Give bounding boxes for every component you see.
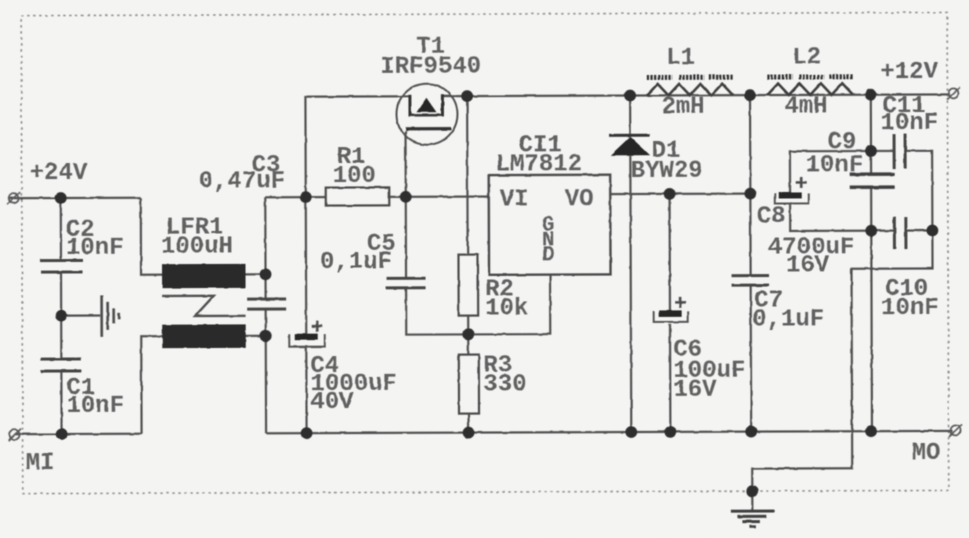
svg-text:10nF: 10nF bbox=[66, 235, 124, 262]
capacitor C4 electrolytic bbox=[289, 321, 325, 347]
junction C10/C11 earth-side node bbox=[926, 225, 938, 237]
capacitor C10 bbox=[894, 217, 906, 249]
wire: C2/C1 vertical chain bbox=[60, 198, 62, 260]
wire: C11 leads bbox=[871, 150, 893, 152]
junction R2/R3/C5/GND node bbox=[462, 328, 474, 340]
svg-text:2mH: 2mH bbox=[661, 94, 704, 121]
wire: left pillar from bottom coil to bottom rail bbox=[141, 336, 162, 434]
capacitor C6 electrolytic bbox=[654, 297, 688, 322]
resistor R1 bbox=[326, 187, 390, 205]
capacitor C1 bbox=[41, 359, 82, 371]
wire: regulator GND lead bbox=[468, 275, 550, 335]
wire: T1 gate lead bbox=[404, 131, 406, 197]
junction C6 bottom on ground rail bbox=[664, 426, 676, 438]
junction cap chain on ground rail bbox=[865, 425, 877, 437]
wire: C4 branch bbox=[305, 197, 308, 333]
wire: C8 top loop bbox=[790, 151, 871, 192]
svg-text:16V: 16V bbox=[673, 377, 717, 404]
svg-text:D: D bbox=[542, 244, 555, 267]
svg-text:BYW29: BYW29 bbox=[631, 158, 703, 185]
junction C6 top on VO rail bbox=[664, 188, 676, 200]
wire: C7 branch bbox=[749, 95, 752, 275]
inductor L2 bbox=[767, 77, 853, 95]
capacitor C11 bbox=[894, 134, 905, 169]
junction R1/C5/T1 gate node bbox=[400, 191, 412, 203]
terminal MO bottom bbox=[949, 424, 962, 436]
svg-text:LM7812: LM7812 bbox=[496, 151, 583, 178]
svg-text:L2: L2 bbox=[792, 44, 821, 71]
wire: VO rail bbox=[610, 193, 750, 196]
regulator CI1 LM7812 box bbox=[489, 175, 611, 275]
capacitor C7 bbox=[732, 276, 770, 286]
diode D1 bbox=[609, 135, 650, 155]
wire: earth branch from output caps bbox=[751, 230, 933, 509]
svg-text:10nF: 10nF bbox=[66, 393, 124, 420]
terminal MI top bbox=[7, 192, 20, 204]
earth symbol left bbox=[102, 295, 120, 337]
svg-text:0,1uF: 0,1uF bbox=[320, 249, 392, 276]
junction R3 bottom on ground rail bbox=[463, 427, 475, 439]
wire: VI rail left of R1 bbox=[265, 196, 326, 198]
wire: R2 top lead from output rail bbox=[466, 96, 469, 254]
wire: C10 leads bbox=[871, 230, 893, 232]
junction C1 bottom on ground rail bbox=[56, 428, 68, 440]
junction C4/R1 node on VI rail bbox=[300, 191, 312, 203]
svg-text:330: 330 bbox=[483, 371, 526, 398]
svg-text:MI: MI bbox=[26, 450, 55, 477]
wire: top rail from T1 to +12V terminal bbox=[456, 94, 949, 96]
junction L1/L2 node bbox=[744, 89, 756, 101]
transistor T1 MOSFET bbox=[396, 84, 457, 145]
wire: C6 branch bbox=[668, 194, 671, 312]
junction D1 cathode on switch rail bbox=[624, 90, 636, 102]
junction D1 anode on ground rail bbox=[625, 426, 637, 438]
wire: top coil right lead bbox=[246, 273, 266, 275]
svg-text:VI: VI bbox=[500, 186, 529, 213]
junction C1/C2 midpoint to earth bbox=[55, 310, 67, 322]
wire: D1 branch bbox=[629, 96, 631, 136]
wire: bottom rail right segment bbox=[266, 431, 952, 433]
junction C2 top on input rail bbox=[55, 192, 67, 204]
wire: input rail +24V bbox=[9, 197, 141, 200]
terminal MI bottom bbox=[8, 429, 21, 441]
wire: bottom rail left segment bbox=[15, 433, 142, 436]
svg-text:+12V: +12V bbox=[880, 59, 938, 86]
svg-text:C8: C8 bbox=[757, 203, 786, 230]
capacitor C3 bbox=[247, 299, 286, 309]
junction C8/C9/C10 bottom node bbox=[865, 225, 877, 237]
inductor L1 bbox=[647, 77, 734, 95]
svg-text:100uH: 100uH bbox=[161, 233, 233, 260]
svg-text:VO: VO bbox=[565, 186, 594, 213]
svg-text:0,1uF: 0,1uF bbox=[752, 306, 824, 333]
earth symbol bottom bbox=[731, 511, 775, 527]
svg-text:40V: 40V bbox=[310, 389, 354, 416]
svg-text:10nF: 10nF bbox=[880, 110, 938, 137]
svg-text:16V: 16V bbox=[786, 252, 830, 279]
wire: R3 leads bbox=[467, 334, 469, 354]
svg-text:4mH: 4mH bbox=[784, 93, 827, 120]
junction earth node on frame bbox=[746, 485, 758, 497]
junction LFR1 top winding output bbox=[260, 268, 272, 280]
wire: left pillar to top coil bbox=[141, 198, 162, 275]
inductor LFR1 bottom winding bbox=[162, 324, 246, 348]
junction C8/C9/C11 top node bbox=[865, 145, 877, 157]
terminal MO top (+12V) bbox=[947, 87, 960, 99]
wire: earth stub left bbox=[61, 314, 100, 316]
wire: node after choke up to VI rail and C3 bbox=[264, 197, 267, 299]
svg-text:IRF9540: IRF9540 bbox=[380, 54, 481, 81]
junction L2 output +12V node bbox=[865, 89, 877, 101]
wire: C5 branch bbox=[405, 197, 407, 278]
capacitor C8 electrolytic bbox=[775, 177, 809, 204]
resistor R3 bbox=[459, 355, 479, 414]
inductor LFR1 top winding bbox=[162, 264, 246, 288]
junction C4 bottom on ground rail bbox=[301, 427, 313, 439]
resistor R2 bbox=[458, 255, 478, 316]
svg-text:10nF: 10nF bbox=[806, 152, 864, 179]
junction C7 bottom on ground rail bbox=[745, 426, 757, 438]
wire: R2 bottom lead bbox=[467, 316, 469, 335]
capacitor C2 bbox=[40, 260, 82, 272]
junction R2 top on switch rail bbox=[461, 90, 473, 102]
LFR1 core Z symbol bbox=[162, 296, 245, 316]
svg-text:MO: MO bbox=[912, 440, 941, 467]
svg-text:+24V: +24V bbox=[30, 160, 88, 187]
svg-text:10k: 10k bbox=[485, 295, 528, 322]
wire: top rail from node to T1 bbox=[305, 96, 397, 197]
wire: +12V node down through C9 chain bbox=[870, 95, 872, 174]
capacitor C9 bbox=[850, 174, 895, 187]
junction LFR1 bottom winding output bbox=[260, 330, 272, 342]
svg-text:10nF: 10nF bbox=[881, 295, 939, 322]
svg-text:L1: L1 bbox=[666, 45, 695, 72]
wire: VI rail right of R1 to regulator bbox=[389, 195, 488, 198]
svg-text:0,47uF: 0,47uF bbox=[199, 168, 286, 195]
wire: C8 bottom loop bbox=[790, 203, 871, 231]
wire: bottom coil right lead bbox=[246, 335, 266, 337]
capacitor C5 bbox=[386, 278, 426, 288]
svg-text:100: 100 bbox=[333, 163, 376, 190]
junction C7 top on VO rail bbox=[744, 188, 756, 200]
